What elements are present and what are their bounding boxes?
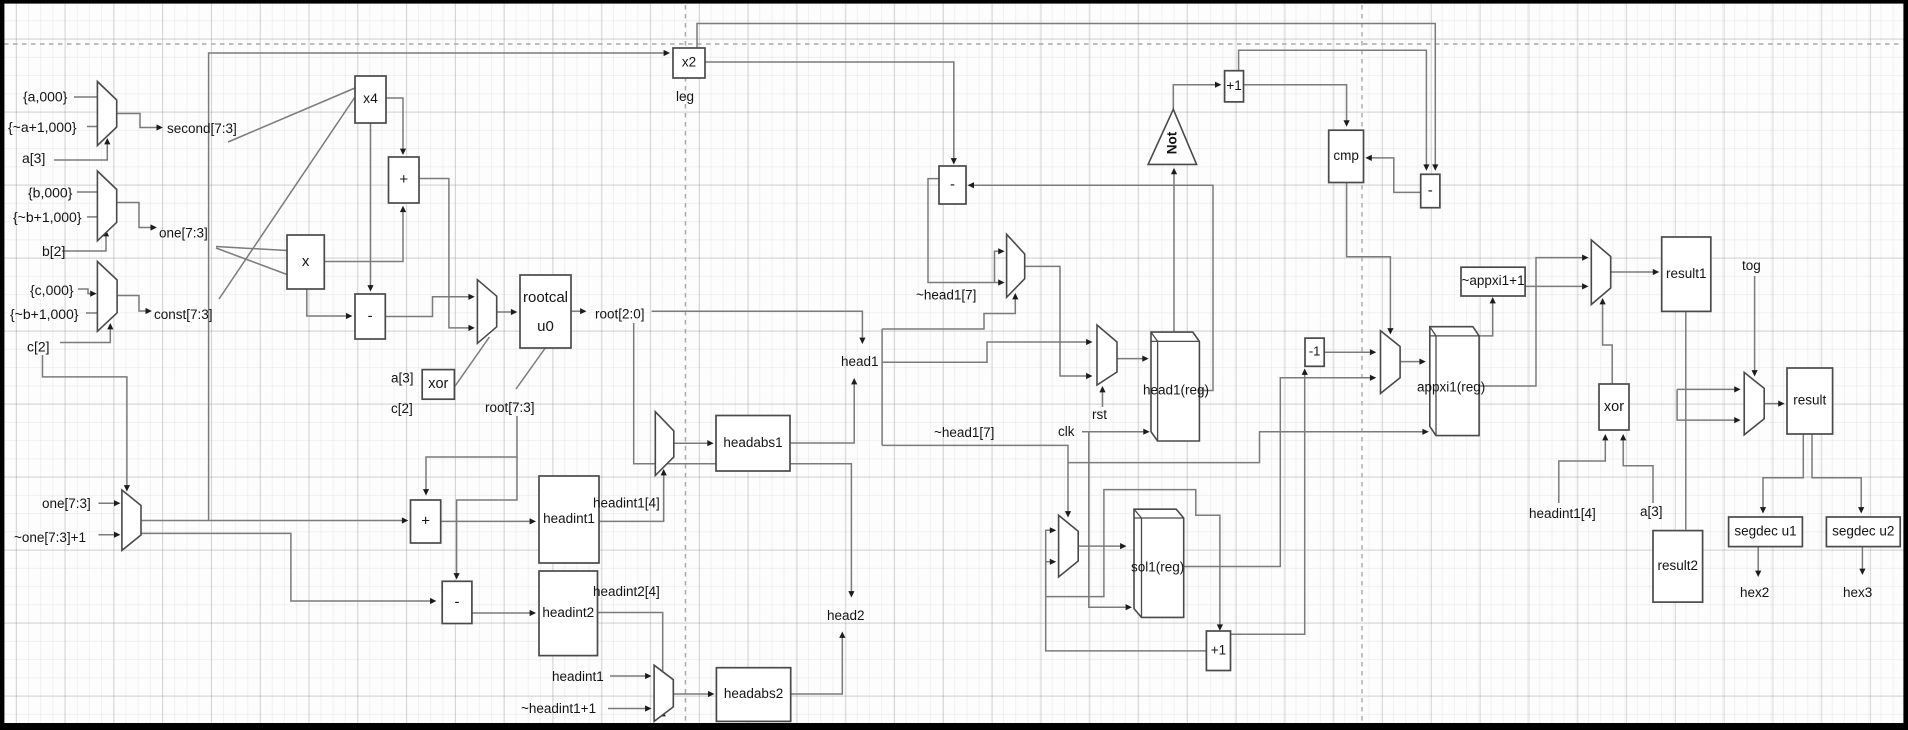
mux M2 (b operand select) [97, 171, 116, 241]
negator ~appxi1+1 [1461, 267, 1525, 296]
wire ~head1[7] to mux M8 select [882, 293, 1018, 329]
svg-text:a[3]: a[3] [391, 371, 414, 386]
svg-text:+1: +1 [1226, 78, 1241, 93]
wire ~head1[7] vertical link [881, 329, 883, 445]
wire {c,000} to mux M3 in0 [78, 289, 97, 297]
wire mux M12 output to result1 [1611, 269, 1660, 275]
wire const[7:3] to x4 (diagonal) [219, 97, 355, 299]
wire rst to mux M9 select [1099, 386, 1105, 407]
svg-text:+: + [399, 171, 408, 188]
multiplier-by-2 x2 [673, 48, 705, 78]
wire rootcal u0 to node root[7:3] (diagonal) [516, 348, 545, 389]
wire headint2[4] to mux M7 select [598, 613, 666, 717]
wire clk branch to sol1(reg) [1089, 432, 1132, 611]
svg-text:-: - [950, 176, 955, 193]
svg-text:const[7:3]: const[7:3] [154, 307, 213, 322]
wire ~one[7:3]+1 to mux M4 in1 [99, 532, 121, 538]
wire mux M4 output branch to x2 [209, 50, 670, 521]
wire subtractor output to mux M5 in0 [385, 294, 475, 317]
wire head1(reg) output to subtractor3 right [968, 182, 1213, 390]
svg-text:headint1[4]: headint1[4] [593, 496, 660, 511]
mux M12 (result1 mux) [1591, 240, 1610, 305]
dashed page-boundary vertical line 1 [684, 5, 686, 723]
wire tog to mux M13 select [1752, 276, 1758, 377]
wire result output to segdec u2 [1812, 434, 1864, 514]
svg-text:~head1[7]: ~head1[7] [934, 425, 994, 440]
svg-text:+1: +1 [1211, 642, 1226, 657]
dashed page-boundary vertical line 2 [1361, 5, 1363, 723]
not gate Not [1148, 109, 1197, 164]
wire ~head1[7] to mux M10 select [882, 445, 1071, 517]
svg-text:{~b+1,000}: {~b+1,000} [10, 306, 79, 322]
svg-text:-1: -1 [1309, 344, 1321, 359]
wire root[7:3] branch to subtractor2 top [454, 457, 518, 580]
svg-text:{a,000}: {a,000} [23, 89, 68, 105]
wire c[2] branch to bottom mux M4 select [43, 355, 131, 492]
wire {b,000} to mux M2 in0 [77, 191, 97, 193]
svg-text:{b,000}: {b,000} [28, 185, 73, 201]
register headint2 [539, 571, 598, 656]
svg-text:{~a+1,000}: {~a+1,000} [8, 119, 77, 135]
subtractor4 - (right) [1421, 174, 1440, 207]
wire minus-one output to mux M11 in0 [1324, 349, 1376, 355]
wire mux M2 output to node one[7:3] [117, 203, 157, 231]
register head1(reg) [1151, 332, 1199, 441]
wire x2 top to subtractor4 in1 [697, 24, 1438, 171]
wire xor to mux M5 select (diagonal) [454, 337, 489, 387]
svg-text:-: - [455, 593, 460, 610]
svg-text:segdec u2: segdec u2 [1832, 523, 1894, 538]
svg-text:headabs1: headabs1 [723, 435, 782, 450]
wire one[7:3] to mux M4 in0 [99, 500, 121, 506]
wire plus1 output to cmp top [1244, 85, 1350, 127]
wire sol1(reg) output to mux M11 in1 [1184, 375, 1377, 567]
wire plus2 output to mux M10 in1 [1046, 559, 1207, 651]
wire {~b+1,000} to mux M3 in1 [86, 312, 97, 314]
wire result1 to mux M13 in0 [1677, 386, 1741, 392]
mux M7 (headabs2 select) [654, 665, 673, 721]
svg-text:u0: u0 [537, 318, 554, 335]
svg-text:~appxi1+1: ~appxi1+1 [1462, 273, 1525, 288]
svg-text:~headint1+1: ~headint1+1 [521, 701, 596, 716]
wire root[2:0] to node head1 [652, 311, 866, 344]
svg-text:one[7:3]: one[7:3] [42, 496, 91, 511]
svg-text:headint1[4]: headint1[4] [1529, 506, 1596, 521]
svg-text:second[7:3]: second[7:3] [167, 121, 237, 136]
wire ~appxi1+1 output to mux M12 in0 [1525, 283, 1588, 289]
wire x2 output to subtractor3 top [705, 62, 957, 165]
xor2 gate (right) [1599, 384, 1629, 430]
wire Not output to plus1 [1173, 82, 1221, 110]
xor gate (left) [422, 370, 454, 400]
wire headint1[4] to mux M6 select [599, 469, 667, 521]
wire multiplier output to adder bottom [324, 206, 406, 262]
wire mux M8 output to mux M9 in1 [1025, 266, 1093, 379]
wire x4 output to adder top [386, 98, 406, 155]
svg-text:{~b+1,000}: {~b+1,000} [13, 209, 82, 225]
svg-text:result: result [1793, 393, 1826, 408]
dashed page-boundary horizontal line [4, 43, 1903, 45]
wire ~headint1+1 to mux M7 in1 [608, 705, 652, 711]
wire c[2] select to mux M3 [60, 323, 113, 343]
headabs1 [716, 416, 790, 472]
mux M11 (appxi1 mux) [1381, 331, 1401, 394]
wire appxi1(reg) output to mux M12 in1 [1479, 255, 1588, 387]
svg-text:c[2]: c[2] [27, 339, 50, 355]
multiplier-by-4 x4 [355, 76, 386, 123]
subtractor - (left) [355, 294, 385, 339]
wire headabs1 output to node head1 [790, 378, 857, 443]
register sol1(reg) [1134, 509, 1184, 617]
wire rootcal u0 output to node root[2:0] [571, 308, 587, 314]
wire {~a+1,000} to mux M1 in1 [87, 126, 97, 128]
adder2 + (bottom-left) [411, 500, 441, 543]
wire x4 bottom to subtractor top [367, 123, 373, 292]
subtractor2 - (bottom-left) [442, 581, 472, 623]
svg-text:leg: leg [676, 89, 694, 104]
svg-text:{c,000}: {c,000} [30, 282, 74, 298]
wire mux M6 output to headabs1 [674, 440, 714, 446]
mux M6 (headabs1 select) [655, 412, 674, 476]
svg-text:Not: Not [1165, 131, 1180, 154]
svg-text:x: x [302, 253, 310, 270]
wire root[2:0] branch to node head2 [634, 323, 855, 598]
wire subtractor2 output to headint2 [472, 610, 536, 616]
register result [1787, 368, 1833, 434]
svg-text:tog: tog [1742, 258, 1761, 273]
wire segdec u2 output to hex3 [1859, 547, 1865, 575]
svg-text:segdec u1: segdec u1 [1734, 523, 1796, 538]
svg-text:-: - [368, 307, 373, 324]
headabs2 [716, 668, 790, 722]
wire one[7:3] to multiplier in0 (diagonal) [216, 247, 287, 251]
decrementer -1 [1305, 338, 1324, 366]
mux M3 (c operand select) [97, 262, 117, 332]
svg-text:-: - [1428, 182, 1433, 199]
svg-text:x2: x2 [682, 55, 696, 70]
svg-text:headint2[4]: headint2[4] [593, 584, 660, 599]
wire mux M4 output to adder2 [141, 517, 408, 523]
wire result output to segdec u1 [1760, 434, 1803, 514]
svg-text:headint1: headint1 [543, 511, 595, 526]
wire plus2 output to minus-one bottom [1231, 369, 1308, 635]
mux M10 (sol1 mux) [1059, 515, 1079, 577]
multiplier x [287, 235, 324, 289]
incrementer +1 (bottom) [1206, 631, 1230, 671]
svg-text:sol1(reg): sol1(reg) [1131, 560, 1184, 575]
svg-text:head1: head1 [841, 354, 879, 369]
wire plus1 top to subtractor4 in0 [1239, 50, 1430, 171]
svg-text:~head1[7]: ~head1[7] [916, 288, 976, 303]
svg-text:+: + [421, 512, 430, 529]
wire headint1[4] to xor2 in0 [1559, 434, 1609, 503]
wire mux M1 output to node second[7:3] [117, 114, 163, 131]
wire appxi1(reg) top to ~appxi1+1 [1479, 297, 1496, 336]
incrementer +1 (top) [1225, 71, 1244, 102]
svg-text:root[2:0]: root[2:0] [595, 307, 645, 322]
wire {~b+1,000} to mux M2 in1 [87, 216, 97, 218]
svg-text:result2: result2 [1658, 558, 1699, 573]
wire clk to head1(reg) [1082, 429, 1150, 435]
wire mux M3 output to node const[7:3] [117, 296, 152, 315]
segdec u2 [1826, 517, 1900, 547]
wire adder2 output to headint1 [441, 518, 536, 524]
register headint1 [539, 476, 599, 563]
wire loop mux M10 in0 to plus2 top [1046, 490, 1223, 631]
wire subtractor3 output to mux M8 in1 [928, 179, 1005, 286]
svg-text:root[7:3]: root[7:3] [485, 400, 535, 415]
comparator cmp [1329, 130, 1364, 182]
wire b[2] select to mux M2 [62, 230, 109, 251]
wire ~head1[7] branch to appxi1(reg) clk [1068, 429, 1429, 463]
wire second[7:3] to x4 (diagonal) [228, 88, 355, 142]
wire subtractor3 output branch to mux M8 in0 [995, 248, 1005, 282]
wire mux M9 output to head1(reg) [1117, 356, 1149, 362]
svg-text:x4: x4 [363, 90, 378, 106]
wire a[3] select to mux M1 [54, 138, 110, 160]
wire result1 output to result2 [1685, 311, 1687, 529]
wire head1 to mux M9 in0 [882, 339, 1092, 362]
wire one[7:3] to multiplier in1 (diagonal) [216, 248, 287, 275]
svg-text:rst: rst [1092, 407, 1107, 422]
svg-text:head2: head2 [827, 608, 865, 623]
mux M8 (head1 mux) [1007, 234, 1025, 297]
mux M1 (a operand select) [97, 82, 116, 146]
svg-text:rootcal: rootcal [523, 289, 568, 306]
wire cmp output to mux M11 select [1347, 183, 1394, 335]
adder + (top) [389, 157, 420, 203]
svg-text:a[3]: a[3] [22, 150, 45, 166]
wire subtractor4 output to cmp right [1365, 155, 1420, 193]
register result1 [1662, 237, 1711, 311]
svg-text:one[7:3]: one[7:3] [159, 226, 208, 241]
wire mux M5 output to rootcal u0 [497, 309, 518, 315]
wire result1 to mux M13 in1 [1677, 389, 1741, 423]
register appxi1(reg) [1430, 327, 1479, 436]
mux M9 (rst mux) [1097, 325, 1117, 385]
svg-text:b[2]: b[2] [42, 243, 65, 259]
svg-text:cmp: cmp [1333, 148, 1359, 163]
wire {a,000} to mux M1 in0 [74, 96, 97, 98]
mux M5 (rootcal input select) [477, 280, 496, 344]
svg-text:~one[7:3]+1: ~one[7:3]+1 [14, 530, 86, 545]
mux M4 (one abs select) [122, 490, 141, 550]
wire mux M10 output to sol1(reg) [1078, 543, 1126, 549]
svg-text:hex3: hex3 [1843, 585, 1872, 600]
wire segdec u1 output to hex2 [1755, 547, 1761, 577]
svg-text:a[3]: a[3] [1640, 504, 1663, 519]
wire a[3] to xor2 in1 [1620, 434, 1653, 503]
wire mux M7 output to headabs2 [673, 691, 714, 697]
register result2 [1653, 531, 1703, 603]
svg-text:result1: result1 [1666, 266, 1707, 281]
wire adder output to mux M5 in1 [419, 179, 475, 332]
wire mux M13 output to result [1764, 401, 1784, 407]
svg-text:headint1: headint1 [552, 669, 604, 684]
svg-text:appxi1(reg): appxi1(reg) [1417, 380, 1485, 395]
svg-text:hex2: hex2 [1740, 585, 1769, 600]
wire headint1 to mux M7 in0 [610, 673, 652, 679]
wire xor2 output to mux M12 select [1600, 298, 1613, 384]
segdec u1 [1729, 517, 1803, 547]
wire head1(reg) to Not input [1171, 168, 1177, 332]
svg-text:clk: clk [1058, 424, 1075, 439]
wire mux M11 output to appxi1(reg) [1400, 359, 1426, 365]
svg-text:headint2: headint2 [542, 605, 594, 620]
svg-text:xor: xor [428, 376, 448, 392]
wire root[7:3] to adder2 top [423, 416, 517, 496]
svg-text:head1(reg): head1(reg) [1143, 383, 1209, 398]
wire headabs2 output to node head2 [791, 632, 846, 695]
wire mux M4 output branch to subtractor2 left [141, 533, 436, 604]
rootcal u0 [520, 275, 571, 348]
svg-text:headabs2: headabs2 [724, 686, 783, 701]
svg-text:c[2]: c[2] [391, 401, 413, 416]
svg-text:xor: xor [1604, 399, 1624, 415]
mux M13 (result mux) [1744, 372, 1764, 434]
subtractor3 - (middle) [939, 166, 966, 204]
wire multiplier bottom to subtractor left [307, 289, 353, 319]
